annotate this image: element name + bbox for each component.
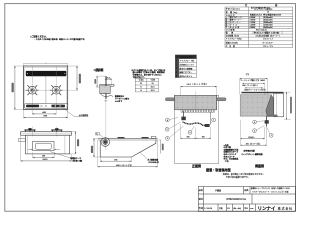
svg-text:ガステーブル: ガステーブル [263, 45, 273, 48]
svg-text:株式会社: 株式会社 [278, 206, 293, 211]
install front: callout 5 [188, 131, 192, 135]
side view body [100, 140, 156, 157]
svg-text:300: 300 [202, 137, 205, 139]
plan bottom dim 1 [32, 113, 56, 115]
C detail vertical dim [96, 76, 98, 87]
front view door [33, 141, 54, 150]
mid note 4 lines [131, 68, 165, 79]
front view body [26, 135, 70, 154]
svg-text:立ち消え安全装置（全バーナー）: 立ち消え安全装置（全バーナー） [255, 34, 280, 37]
front view top plate [21, 132, 72, 136]
plan bottom dim 2 [23, 110, 25, 118]
plan view inner trim lines [25, 67, 67, 108]
svg-text:20.3: 20.3 [151, 87, 155, 89]
svg-text:280: 280 [187, 137, 190, 139]
svg-text:25: 25 [152, 83, 154, 85]
knob panel right [51, 105, 65, 108]
front view centerline right [55, 127, 57, 137]
C detail stud bolt [104, 76, 106, 99]
svg-text:寸法: 寸法 [246, 73, 250, 76]
install front: side tab right [217, 98, 226, 101]
burner centerline left [31, 66, 33, 115]
C detail note [115, 94, 130, 103]
svg-text:据置・取替兼用型: 据置・取替兼用型 [206, 167, 232, 172]
install front: callout 1 [212, 118, 216, 122]
svg-text:1/2: 1/2 [227, 208, 230, 210]
note above title block [223, 172, 265, 179]
battery case leader + note [50, 152, 70, 158]
side view section mark C [96, 132, 100, 135]
plan top dim line [24, 62, 68, 64]
install side: dark wedge [266, 95, 274, 116]
front view centerline left [31, 127, 33, 137]
install front: counter slab [175, 95, 217, 110]
install front: callout 4 [166, 118, 170, 122]
burner centerline right [55, 66, 57, 115]
side view bottom dim 1 [99, 157, 101, 162]
svg-text:（トッププレート部含む）: （トッププレート部含む） [253, 8, 273, 11]
knob panel left [26, 105, 39, 108]
side view bottom dim 2 [97, 140, 99, 167]
front view burner grate right [51, 128, 62, 131]
install side: callout 2 [253, 129, 257, 133]
svg-text:ガラストップ: ガラストップ [263, 38, 273, 41]
install front: hose [183, 122, 205, 126]
install side: pipe [266, 116, 268, 127]
gas connect note [140, 152, 147, 158]
plan left dim [14, 66, 16, 110]
svg-text:C部詳細: C部詳細 [94, 68, 104, 72]
front view bottom dim 1 [32, 152, 34, 158]
svg-text:25: 25 [140, 83, 142, 85]
svg-text:(B4→A4): (B4→A4) [233, 207, 241, 210]
note top-left [30, 35, 86, 42]
burner horizontal centerline [24, 89, 78, 91]
install front: louver band [181, 110, 215, 112]
side view burner head [101, 138, 110, 147]
svg-text:12: 12 [267, 12, 269, 14]
knob marks middle [40, 105, 47, 107]
burner left [26, 85, 39, 95]
C detail flange [100, 84, 114, 89]
svg-text:20.3: 20.3 [151, 90, 155, 92]
install side: top dims [240, 73, 267, 91]
svg-text:17.09.26: 17.09.26 [204, 208, 213, 210]
svg-text:全点火時: 全点火時 [230, 26, 240, 29]
side view grate bars [118, 137, 125, 138]
center divider line [45, 76, 47, 103]
install side: base note [241, 149, 264, 156]
install front: bottom dim [179, 124, 181, 139]
svg-text:側面図: 側面図 [254, 163, 264, 168]
front view right dim 209 [72, 131, 77, 133]
install front: parts note list [224, 143, 239, 163]
side view right dim [156, 139, 161, 141]
C detail horizontal dim 25.3 [105, 78, 112, 80]
parts legend table [175, 55, 196, 78]
install front: gas pipe [183, 111, 185, 118]
install front: callout 3 [165, 127, 169, 131]
side view left dim [93, 137, 97, 139]
install front: right fitting [205, 124, 210, 127]
title block [198, 187, 295, 212]
spec table [225, 7, 293, 48]
svg-text:598.6: 598.6 [42, 159, 48, 161]
install side: right dim [284, 91, 291, 93]
burner right [50, 85, 63, 95]
install side: unit body [274, 93, 284, 117]
svg-text:パールシルバー: パールシルバー [262, 41, 274, 44]
C detail counter hatch block [100, 86, 111, 94]
install front: centerline [195, 92, 197, 110]
install front: clearance box [175, 95, 219, 163]
svg-text:R1/2（おねじ）: R1/2（おねじ） [256, 29, 268, 32]
svg-text:正面図: 正面図 [192, 163, 201, 168]
svg-text:RHB21N2R21V-GL: RHB21N2R21V-GL [226, 199, 247, 201]
install front: callout 2 [166, 137, 170, 141]
install front: side tab left [165, 98, 174, 101]
leader ignition window [62, 107, 89, 116]
front view burner grate left [24, 128, 35, 131]
install side: callout 4 [253, 120, 257, 124]
front view left pipe stub [18, 139, 25, 141]
side view centerline [104, 137, 106, 149]
front view bottom dim 2 [20, 136, 22, 162]
side view vent [151, 137, 156, 139]
svg-text:単1形アルカリ乾電池（1.5V×2個）: 単1形アルカリ乾電池（1.5V×2個） [254, 31, 281, 34]
svg-text:9.96kW: 9.96kW [250, 27, 256, 29]
plan right dim 223.5 [68, 65, 78, 67]
install side: pan bottom [267, 115, 278, 117]
side view top plate [98, 137, 158, 139]
install side: bottom dims [240, 120, 242, 146]
C detail clip arc [100, 94, 113, 97]
install side: callout 1 [269, 134, 273, 138]
mid size table [135, 78, 158, 92]
sheet border [5, 4, 296, 212]
svg-text:mm: mm [250, 208, 254, 210]
grill exhaust band [26, 71, 67, 76]
plan view outer rect [24, 66, 68, 110]
front view inner dims [28, 148, 60, 150]
control strip [24, 104, 67, 109]
install side: top plate [242, 92, 284, 94]
install side: counter slab [240, 95, 271, 116]
